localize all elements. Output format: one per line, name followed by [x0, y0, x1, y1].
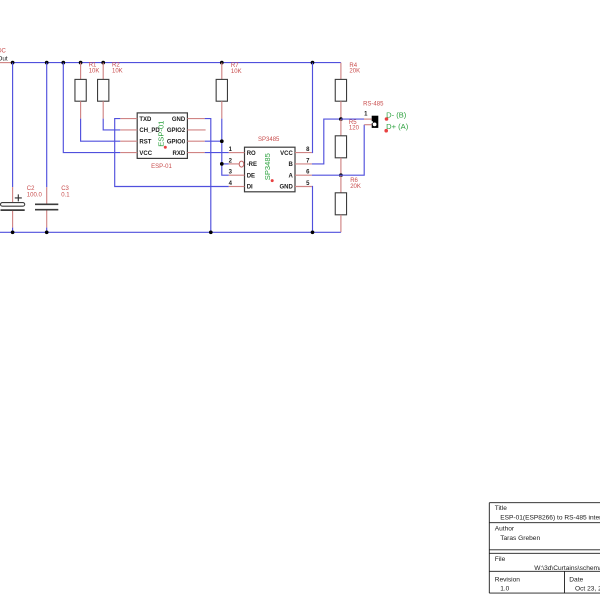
svg-text:GPIO2: GPIO2 — [167, 128, 186, 134]
svg-text:RO: RO — [247, 151, 256, 157]
wire C3 top — [46, 63, 48, 204]
node VCC port Out — [0, 48, 13, 62]
ESP-01 pin RXD — [173, 151, 205, 157]
svg-text:DE: DE — [247, 173, 255, 179]
svg-text:Out: Out — [0, 55, 8, 62]
wire R2 to CH_PD — [103, 119, 120, 130]
SP3485 pin 4 DI — [229, 181, 253, 191]
resistor R7 — [216, 63, 241, 119]
svg-text:1.0: 1.0 — [500, 585, 509, 592]
svg-text:Title: Title — [495, 505, 508, 512]
svg-text:ESP-01(ESP8266) to RS-485 inte: ESP-01(ESP8266) to RS-485 interface — [500, 515, 600, 522]
svg-text:20K: 20K — [349, 69, 360, 75]
wire C2 top — [12, 63, 14, 203]
ESP-01 pin CH_PD — [120, 128, 160, 134]
net label D+ (A) — [384, 122, 408, 133]
ESP-01 pin GPIO0 — [167, 139, 205, 145]
IC U2 SP3485 box — [245, 147, 296, 192]
wire VCC rail to ESP VCC pin — [63, 63, 120, 153]
wire SP3485 GND to bottom rail — [311, 187, 314, 233]
svg-text:RS-485: RS-485 — [363, 102, 384, 108]
SP3485 refdes label — [258, 137, 280, 143]
svg-text:W:\3d\Curtains\schematic: W:\3d\Curtains\schematic — [534, 565, 600, 572]
ESP-01 pin RST — [120, 139, 151, 145]
SP3485 pin 1 RO — [229, 147, 256, 157]
svg-text:Oct 23, 2019: Oct 23, 2019 — [575, 585, 600, 592]
SP3485 pin 3 DE — [229, 170, 255, 180]
resistor R2 — [98, 63, 123, 119]
svg-text:Date: Date — [569, 576, 583, 583]
SP3485 pin 6 A — [288, 170, 311, 180]
resistor R1 — [75, 63, 99, 119]
svg-text:D+ (A): D+ (A) — [386, 122, 409, 131]
wire GND bottom rail — [0, 231, 341, 233]
SP3485 pin 5 GND — [279, 181, 311, 191]
wire B to node1 — [312, 119, 341, 164]
ESP-01 internal name — [156, 121, 166, 149]
junction dots on GND rail — [11, 230, 315, 234]
wire R1 to RST — [81, 119, 121, 142]
wire A row to connector pin 2 — [312, 125, 372, 176]
svg-text:A: A — [288, 173, 293, 179]
SP3485 pin 8 VCC — [280, 147, 312, 157]
svg-text:10K: 10K — [231, 69, 242, 75]
svg-text:100.0: 100.0 — [27, 193, 43, 199]
ESP-01 refdes label — [151, 164, 172, 170]
SP3485 pin 2 -RE with inversion diamond — [229, 158, 257, 168]
wire VCC top rail — [13, 62, 341, 64]
wire node1 to connector pin 1 — [341, 118, 372, 120]
svg-text:TXD: TXD — [139, 117, 152, 123]
svg-text:Revision: Revision — [495, 576, 521, 583]
ESP-01 pin GPIO2 (no connect) — [167, 128, 206, 134]
svg-text:RXD: RXD — [173, 151, 186, 157]
net label D- (B) — [385, 111, 407, 121]
wire C2 bottom — [12, 211, 14, 232]
svg-text:Taras Greben: Taras Greben — [500, 535, 540, 542]
resistor R4 — [335, 63, 360, 120]
resistor R5 — [335, 119, 359, 175]
svg-text:SP3485: SP3485 — [258, 137, 280, 143]
svg-text:10K: 10K — [112, 69, 123, 75]
wire VCC rail to SP3485 VCC — [311, 63, 314, 153]
SP3485 internal name — [263, 153, 274, 182]
svg-text:ESP-01: ESP-01 — [156, 121, 165, 147]
capacitor C3 — [35, 186, 70, 210]
resistor R6 — [335, 175, 361, 232]
svg-text:File: File — [495, 556, 506, 563]
wire R7 to GPIO0 and -RE/DE — [205, 119, 229, 176]
svg-text:20K: 20K — [350, 184, 361, 190]
svg-text:C2: C2 — [27, 186, 35, 192]
svg-text:GND: GND — [172, 117, 186, 123]
svg-text:-RE: -RE — [247, 162, 257, 168]
title block frame — [489, 503, 600, 593]
svg-text:RST: RST — [139, 139, 151, 145]
ESP-01 pin VCC — [120, 151, 152, 157]
svg-text:D- (B): D- (B) — [386, 111, 407, 120]
junction dots on VCC rail — [11, 61, 315, 65]
svg-text:ESP-01: ESP-01 — [151, 164, 172, 170]
ESP-01 pin GND — [172, 117, 205, 123]
svg-text:C3: C3 — [61, 186, 69, 192]
capacitor C2 — [1, 186, 43, 210]
connector J1 RS-485 — [363, 102, 384, 128]
svg-text:VCC: VCC — [139, 151, 152, 157]
svg-text:DC: DC — [0, 48, 7, 54]
svg-text:SP3485: SP3485 — [263, 153, 272, 180]
svg-text:VCC: VCC — [280, 151, 293, 157]
SP3485 pin 7 B — [288, 158, 311, 168]
wire TXD to DI — [115, 119, 229, 187]
node B (R5/R6/A/conn2) — [339, 173, 343, 177]
op-amp U1 ESP-01 box — [137, 113, 187, 158]
svg-text:Author: Author — [495, 526, 515, 533]
svg-text:120: 120 — [349, 126, 360, 132]
ESP-01 pin TXD — [120, 117, 152, 123]
svg-text:0.1: 0.1 — [61, 193, 70, 199]
svg-text:B: B — [288, 162, 293, 168]
svg-text:DI: DI — [247, 185, 253, 191]
wire ESP GND to bottom rail — [205, 119, 211, 233]
svg-text:GND: GND — [279, 185, 293, 191]
title block texts — [495, 505, 600, 592]
svg-text:GPIO0: GPIO0 — [167, 139, 186, 145]
svg-text:10K: 10K — [89, 69, 100, 75]
wire C3 bottom — [46, 211, 48, 233]
wire RXD to RO — [205, 152, 229, 154]
node A (R4/R5/conn1/B) — [339, 117, 343, 121]
